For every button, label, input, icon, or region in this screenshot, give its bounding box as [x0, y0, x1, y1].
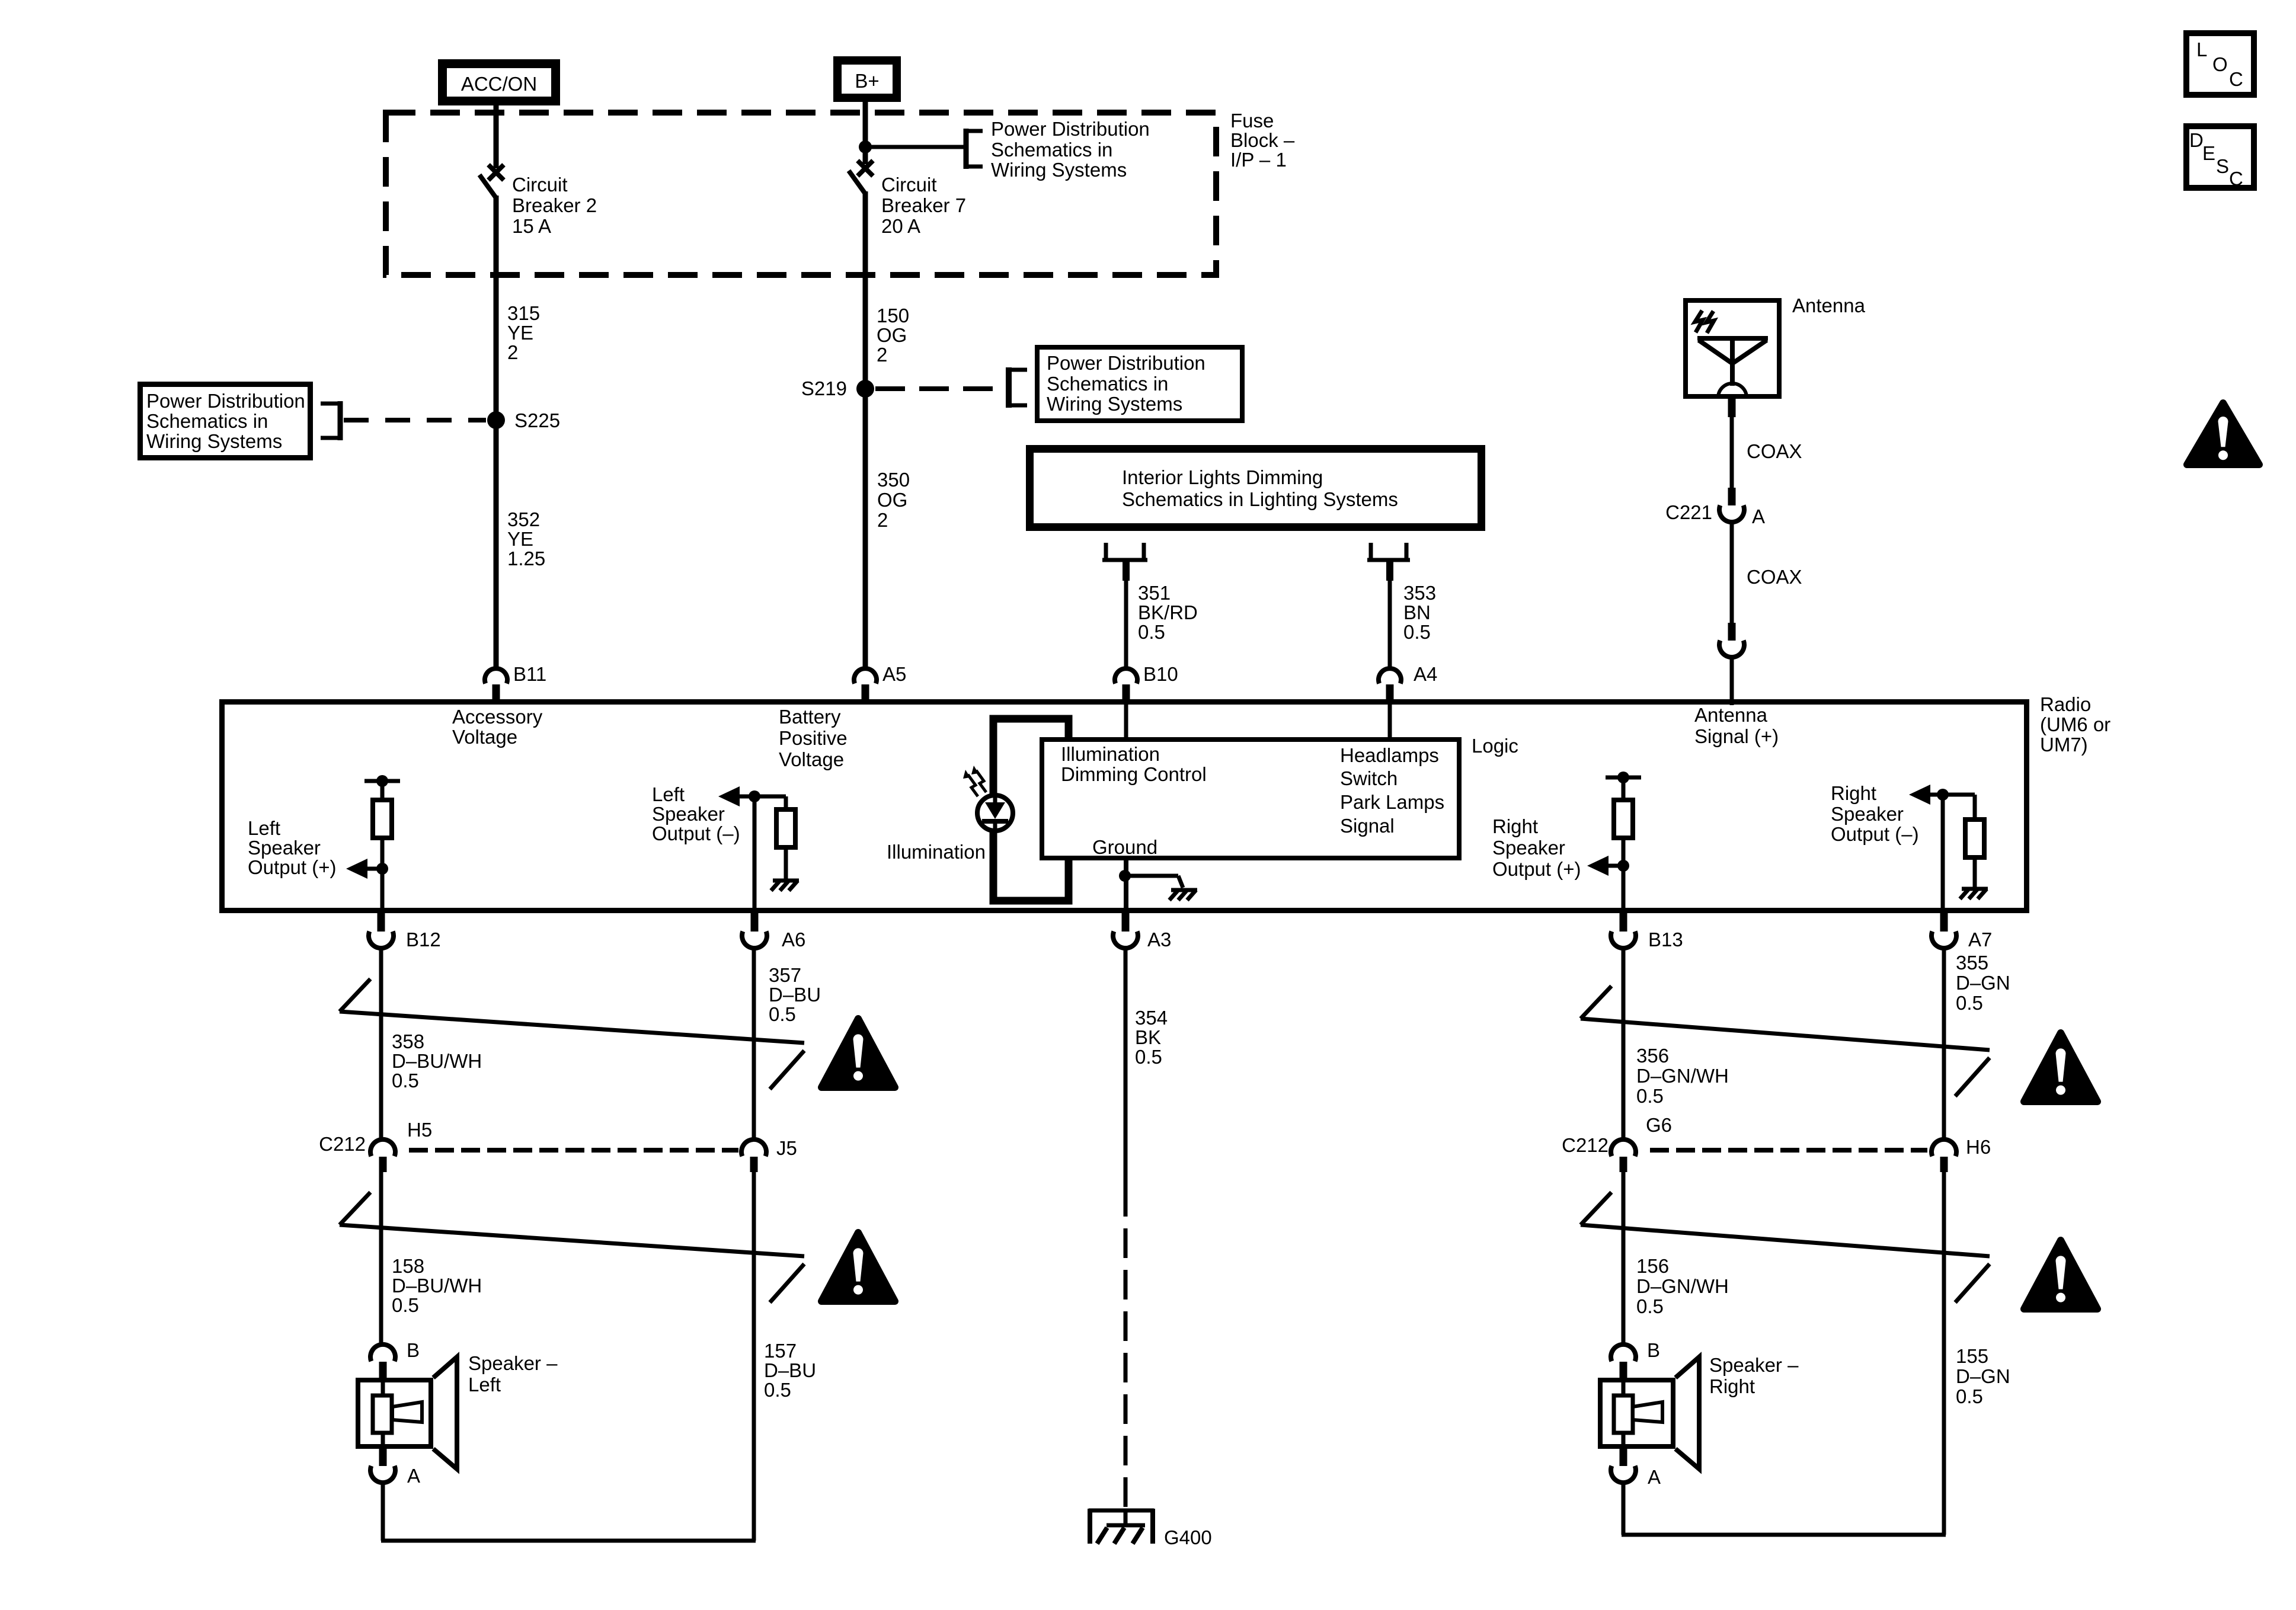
label Left Speaker Output (-) [0, 0, 1, 1]
connector B11 [485, 668, 507, 702]
connector C212 H6 [1932, 1140, 1956, 1172]
connector A7 [1968, 929, 1992, 950]
splice S225 [487, 411, 505, 429]
wire 150 OG 2 [863, 191, 868, 385]
radio logic box [1042, 740, 1459, 858]
wire 315 YE 2 [494, 196, 499, 416]
connector C212 H5 [319, 1133, 366, 1155]
illumination lamp circuit [977, 719, 1069, 901]
warning symbol upper right [2024, 1033, 2097, 1102]
wire 357 D-BU 0.5 [769, 964, 801, 986]
warning symbol (key) [2187, 403, 2259, 465]
speaker right [1600, 1357, 1699, 1469]
ground G400 [1089, 1509, 1154, 1544]
wire A4 to logic [1388, 703, 1392, 741]
connector C212 J5 [741, 1140, 766, 1172]
connector B13 [1611, 913, 1636, 948]
wire 355 D-GN 0.5 [1956, 952, 1988, 974]
wire ACC/ON feed [494, 105, 499, 168]
wire 150 OG 2 [877, 305, 909, 327]
power feed label B+ [837, 60, 897, 98]
label Left Speaker Output (+) [248, 817, 280, 839]
wire 352 YE 1.25 [494, 424, 499, 668]
illumination LED arrows [963, 766, 986, 796]
label Right Speaker Output (+) [0, 0, 1, 1]
reference box Power Distribution Schematics in Wiring Systems (right) [1037, 347, 1242, 421]
twisted pair marker upper left [340, 979, 370, 1012]
ground G400 [1164, 1526, 1212, 1548]
label Illumination [887, 841, 986, 863]
wire 157 D-BU 0.5 [752, 1172, 756, 1541]
speaker right pin B [1611, 1345, 1636, 1379]
wire 350 OG 2 [863, 393, 868, 668]
circuit breaker 7 [881, 174, 937, 196]
twisted pair marker upper right [1581, 986, 1611, 1019]
wire 357 D-BU 0.5 [752, 948, 756, 1141]
coax segment 2 [1747, 566, 1802, 588]
connector B12 [369, 913, 394, 948]
connector B10 [1143, 663, 1178, 685]
label Right Speaker Output (+) [1492, 815, 1538, 837]
label Right Speaker Output (-) [0, 0, 1, 1]
wire 352 YE 1.25 [507, 508, 540, 530]
wire 158 D-BU/WH 0.5 [379, 1172, 383, 1346]
power feed label B+ [855, 70, 879, 92]
wire 353 BN 0.5 [1388, 580, 1392, 668]
right speaker return wire [1622, 1481, 1946, 1535]
dashed reference link to S225 [344, 418, 486, 422]
wire 358 D-BU/WH 0.5 [392, 1030, 424, 1052]
dashed ground wire [1124, 1187, 1128, 1510]
radio box [222, 702, 2027, 911]
connector A5 [854, 668, 877, 702]
warning symbol upper left [821, 1019, 895, 1087]
reference bracket (top) [966, 129, 983, 169]
wire 156 D-GN/WH 0.5 [1622, 1172, 1626, 1346]
dashed connector line C212 right [1650, 1148, 1927, 1153]
connector C212 H5 [370, 1140, 395, 1172]
reference box Power Distribution Schematics in Wiring Systems (right) [1047, 352, 1205, 374]
connector C212 H6 [1966, 1136, 1991, 1158]
dashed connector line C212 left [409, 1148, 738, 1153]
left speaker output minus circuit [718, 786, 799, 911]
connector B13 [1648, 929, 1683, 950]
splice S219 [801, 377, 847, 399]
connector C221 [1665, 501, 1712, 523]
wire 155 D-GN 0.5 [1942, 1172, 1946, 1535]
wire B+ feed [863, 102, 868, 164]
radio label [2040, 693, 2091, 715]
left speaker output plus circuit [346, 775, 400, 911]
antenna lead-in connector [1719, 623, 1744, 657]
connector C212 G6 [1611, 1140, 1636, 1172]
wire 356 D-GN/WH 0.5 [1636, 1045, 1669, 1067]
label Left Speaker Output (+) [0, 0, 1, 1]
connector A6 [742, 913, 767, 948]
outlet tab A4 [1367, 543, 1410, 581]
connector C221 [1719, 488, 1744, 522]
wire 351 BK/RD 0.5 [1138, 582, 1171, 604]
wire 356 D-GN/WH 0.5 [1622, 948, 1626, 1141]
speaker left [358, 1357, 457, 1469]
DESC key box [2186, 126, 2254, 188]
speaker right pin B [1647, 1339, 1660, 1361]
ground wire inside radio [1119, 858, 1197, 911]
connector B11 [513, 663, 546, 685]
label Logic [1472, 735, 1518, 757]
wire 354 BK 0.5 [1135, 1007, 1168, 1029]
power feed label ACC/ON [461, 73, 537, 95]
connector B12 [406, 929, 441, 950]
label Left Speaker Output (-) [652, 783, 685, 805]
speaker right pin A [1648, 1466, 1661, 1488]
warning symbol lower right [2024, 1240, 2097, 1309]
connector A4 [1379, 668, 1401, 702]
logic box labels [1061, 743, 1160, 765]
LOC key box [2186, 33, 2254, 95]
connector A4 [1414, 663, 1437, 685]
twisted pair marker lower left [340, 1192, 370, 1225]
speaker right [1709, 1354, 1798, 1376]
antenna [1686, 300, 1779, 398]
note Power Distribution Schematics in Wiring Systems (top) [991, 118, 1150, 140]
fuse block dashed outline [386, 113, 1216, 275]
DESC key box [2189, 129, 2204, 151]
coax segment 1 [1747, 440, 1802, 462]
warning symbol lower left [821, 1233, 895, 1301]
antenna [1792, 295, 1865, 316]
connector C212 J5 [776, 1137, 797, 1159]
connector A7 [1932, 913, 1956, 948]
connector A3 [1113, 913, 1138, 948]
connector A3 [1147, 929, 1171, 950]
splice S225 [514, 409, 560, 431]
logic box labels [0, 0, 1, 1]
LOC key box [2196, 39, 2207, 60]
label Right Speaker Output (-) [1831, 782, 1876, 804]
speaker right pin A [1611, 1449, 1636, 1483]
dashed reference link to S219 [875, 386, 1006, 391]
wire 156 D-GN/WH 0.5 [1636, 1255, 1669, 1277]
twisted pair marker lower right [1581, 1192, 1611, 1225]
coax segment 1 [1728, 397, 1736, 489]
wire 158 D-BU/WH 0.5 [392, 1255, 424, 1277]
fuse block label [0, 0, 1, 1]
wire 157 D-BU 0.5 [764, 1340, 797, 1362]
pin label Antenna Signal (+) [0, 0, 1, 1]
coax segment 2 [1730, 520, 1734, 625]
wire 350 OG 2 [877, 469, 910, 491]
pin label Antenna Signal (+) [1694, 704, 1767, 726]
fuse block label [1230, 110, 1274, 132]
right speaker output minus circuit [1909, 785, 1988, 911]
right speaker output plus circuit [1587, 772, 1641, 911]
reference box Interior Lights Dimming [1030, 449, 1482, 527]
pin label Accessory Voltage [0, 0, 1, 1]
pin label Battery Positive Voltage [779, 706, 841, 728]
wire 355 D-GN 0.5 [1942, 948, 1946, 1141]
speaker left [468, 1352, 557, 1374]
power feed label ACC/ON [443, 64, 556, 101]
wire 351 BK/RD 0.5 [1124, 580, 1128, 668]
wire 358 D-BU/WH 0.5 [379, 948, 383, 1141]
connector A5 [882, 663, 906, 685]
junction to power distribution note [859, 140, 966, 153]
wire B10 to logic [1124, 703, 1128, 741]
speaker left pin B [407, 1339, 420, 1361]
note Power Distribution Schematics in Wiring Systems (top) [0, 0, 1, 1]
wire 353 BN 0.5 [1403, 582, 1436, 604]
wire 315 YE 2 [507, 302, 540, 324]
pin label Battery Positive Voltage [0, 0, 1, 1]
outlet tab B10 [1102, 543, 1147, 581]
wire 155 D-GN 0.5 [1956, 1345, 1988, 1367]
speaker left pin A [407, 1465, 420, 1487]
circuit breaker 2 [512, 174, 568, 196]
reference box Power Distribution Schematics in Wiring Systems (left) [146, 390, 305, 412]
wire 354 BK 0.5 [1124, 948, 1128, 1187]
reference bracket (left) [321, 401, 340, 440]
wire antenna to radio [1730, 655, 1734, 705]
speaker left pin A [370, 1449, 395, 1483]
pin label Accessory Voltage [452, 706, 542, 728]
reference bracket (right) [1009, 367, 1027, 408]
splice S219 [856, 380, 874, 398]
reference box Interior Lights Dimming [1122, 466, 1323, 488]
circuit breaker 2 [479, 165, 504, 198]
radio label [0, 0, 1, 1]
circuit breaker 7 [849, 161, 873, 194]
connector B10 [1115, 668, 1137, 702]
connector A6 [782, 929, 805, 950]
reference box Power Distribution Schematics in Wiring Systems (left) [140, 385, 311, 458]
speaker left pin B [370, 1345, 395, 1379]
connector C212 G6 [1562, 1134, 1609, 1156]
left speaker return wire [381, 1481, 756, 1541]
